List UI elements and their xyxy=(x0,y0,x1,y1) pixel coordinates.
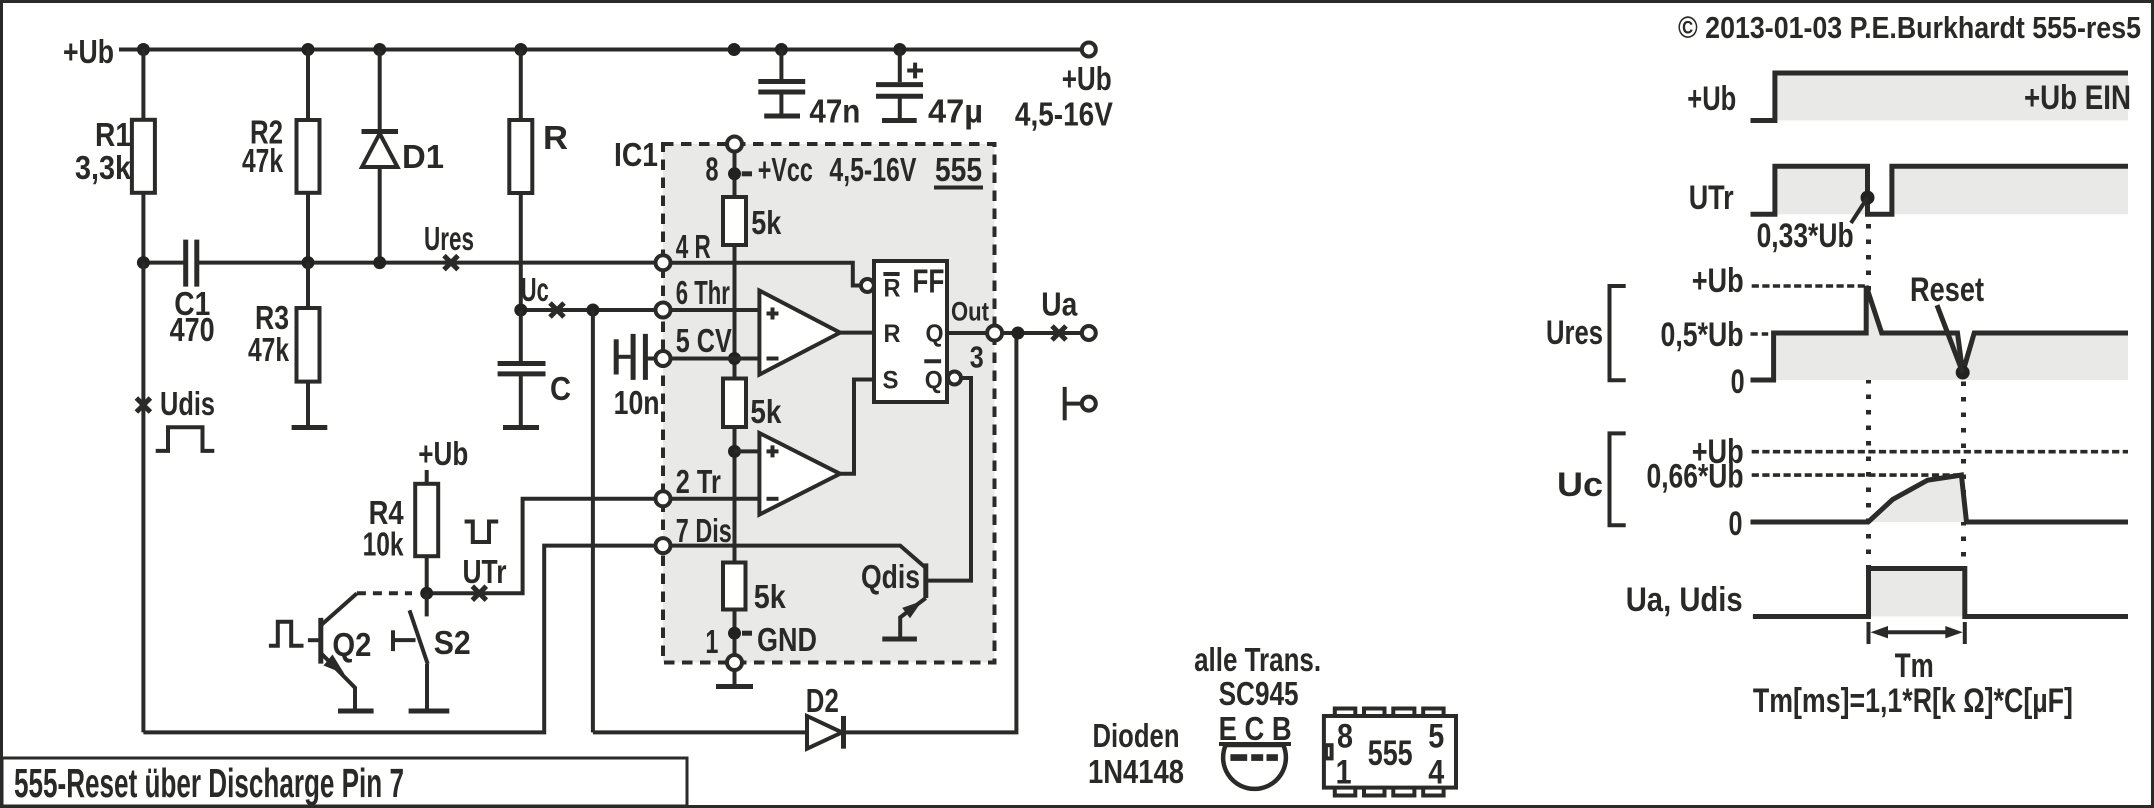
svg-text:FF: FF xyxy=(912,263,944,300)
title box xyxy=(2,758,687,806)
svg-text:0,33*Ub: 0,33*Ub xyxy=(1757,217,1854,255)
svg-text:470: 470 xyxy=(170,311,215,348)
wire pin4 to FF reset xyxy=(671,263,861,286)
transistor package TO-92 xyxy=(1219,710,1292,789)
svg-text:D1: D1 xyxy=(402,138,444,175)
svg-text:6 Thr: 6 Thr xyxy=(676,274,730,311)
dot Reset xyxy=(1956,366,1970,380)
node Uc-D2branch xyxy=(586,304,599,317)
pulse symbol Q2 base xyxy=(269,622,304,646)
svg-text:Uc: Uc xyxy=(521,271,549,308)
node comp2 plus xyxy=(728,445,741,458)
svg-text:Tm: Tm xyxy=(1895,647,1934,685)
svg-text:R1: R1 xyxy=(95,116,131,153)
svg-text:555-Reset über Discharge Pin 7: 555-Reset über Discharge Pin 7 xyxy=(14,760,404,806)
svg-text:Q2: Q2 xyxy=(332,626,371,663)
pulse symbol UTr negative xyxy=(465,522,499,543)
resistor 5k top xyxy=(723,197,782,245)
bubble FF Rbar input xyxy=(861,279,874,292)
wire left Udis vertical xyxy=(141,263,145,733)
svg-text:4,5-16V: 4,5-16V xyxy=(829,151,916,188)
node R4-S2 xyxy=(420,587,433,600)
svg-text:Udis: Udis xyxy=(160,385,215,422)
node out junction xyxy=(1011,327,1024,340)
svg-text:2 Tr: 2 Tr xyxy=(676,463,721,500)
ground pin1 xyxy=(716,670,753,687)
wire Q2 collector dashed link xyxy=(357,591,412,595)
svg-text:C: C xyxy=(550,370,571,407)
svg-text:Uc: Uc xyxy=(1557,466,1603,504)
transistor Q2 xyxy=(308,593,372,709)
dashed +Ub level Ures xyxy=(1752,284,1867,288)
wire comp1 out to FF R xyxy=(840,331,874,335)
svg-text:4: 4 xyxy=(1428,754,1444,792)
marker Udis xyxy=(136,385,215,422)
IC package DIP-8 555 xyxy=(1324,709,1456,796)
dotted timeline t1 xyxy=(1866,224,1871,569)
pulse symbol Udis xyxy=(156,427,215,451)
marker Ures xyxy=(424,220,474,270)
svg-text:E C B: E C B xyxy=(1219,710,1292,747)
resistor 5k mid xyxy=(723,379,782,431)
dashed 0,66*Ub level xyxy=(1752,473,1959,477)
svg-text:Ua, Udis: Ua, Udis xyxy=(1626,581,1743,619)
svg-text:5k: 5k xyxy=(754,578,787,615)
wire comp2 out to FF S xyxy=(840,380,874,474)
bracket Ures xyxy=(1610,286,1626,380)
svg-text:1: 1 xyxy=(1336,754,1352,792)
svg-text:+Ub: +Ub xyxy=(1692,262,1744,300)
wire chain bottom xyxy=(733,610,737,656)
resistor R2 xyxy=(242,50,320,263)
svg-text:S2: S2 xyxy=(434,624,471,661)
diode D1 xyxy=(362,50,445,263)
diagram Ures trace xyxy=(1751,286,2129,380)
dashes 0,5*Ub xyxy=(1751,332,1769,336)
capacitor 47n xyxy=(758,50,860,130)
capacitor C1 xyxy=(170,240,215,348)
terminal Ua xyxy=(1082,326,1096,340)
diagram Uc trace xyxy=(1751,475,2129,522)
capacitor 47u polarized xyxy=(876,50,983,130)
diagram +Ub fill xyxy=(1775,73,2128,121)
ground S2 xyxy=(409,709,450,714)
wire chain mid2 xyxy=(733,427,737,563)
pin 8 circle top xyxy=(727,137,742,152)
svg-text:Q: Q xyxy=(925,367,943,395)
wire UTr to pin2 xyxy=(427,499,656,593)
svg-text:10n: 10n xyxy=(614,384,660,421)
resistor R4 xyxy=(363,470,439,593)
svg-text:Qdis: Qdis xyxy=(861,558,920,595)
svg-text:+Ub: +Ub xyxy=(418,435,468,472)
resistor R3 xyxy=(248,263,320,428)
svg-text:R: R xyxy=(884,320,901,348)
pin 2 Tr xyxy=(656,463,721,506)
dashed +Ub level Uc xyxy=(1752,450,2128,454)
node rail-R2 xyxy=(302,43,315,56)
svg-text:SC945: SC945 xyxy=(1219,675,1299,712)
svg-text:+Vcc: +Vcc xyxy=(758,151,813,188)
svg-text:4 R: 4 R xyxy=(676,228,711,265)
svg-text:Out: Out xyxy=(951,296,989,326)
svg-text:5k: 5k xyxy=(750,393,782,430)
op-amp comp2 trigger xyxy=(759,433,840,515)
terminal Ua return xyxy=(1065,387,1096,420)
pin 3 Out circle xyxy=(987,326,1002,341)
svg-text:8: 8 xyxy=(706,151,719,188)
marker Uc xyxy=(521,271,564,317)
svg-text:© 2013-01-03 P.E.Burkhardt 555: © 2013-01-03 P.E.Burkhardt 555-res5 xyxy=(1678,10,2141,45)
diagram Ua fill xyxy=(1869,569,1965,617)
label alle Trans. SC945 xyxy=(1194,641,1321,712)
svg-text:8: 8 xyxy=(1337,718,1353,756)
pin 1 circle bottom xyxy=(727,655,742,670)
svg-text:555: 555 xyxy=(1368,734,1413,773)
capacitor C xyxy=(498,310,571,428)
svg-text:0: 0 xyxy=(1731,363,1745,401)
svg-text:Ures: Ures xyxy=(1546,314,1603,352)
svg-text:5: 5 xyxy=(1428,718,1444,756)
svg-text:Reset: Reset xyxy=(1910,271,1984,309)
svg-text:S: S xyxy=(883,367,899,395)
ground C xyxy=(503,425,539,430)
ground Q2 xyxy=(338,709,374,714)
svg-text:Tm[ms]=1,1*R[k Ω]*C[µF]: Tm[ms]=1,1*R[k Ω]*C[µF] xyxy=(1753,682,2073,720)
dot UTr threshold xyxy=(1861,191,1875,205)
svg-text:IC1: IC1 xyxy=(614,136,658,173)
svg-text:555: 555 xyxy=(935,151,982,188)
svg-text:Ua: Ua xyxy=(1041,286,1078,323)
bracket Uc xyxy=(1610,433,1626,525)
svg-text:Q: Q xyxy=(926,320,944,348)
wire +Ub rail xyxy=(119,48,1082,52)
op-amp comp1 threshold xyxy=(759,291,840,375)
svg-text:+Ub: +Ub xyxy=(63,33,114,70)
node pin8 xyxy=(728,167,741,180)
diagram Uc fill xyxy=(1868,475,1966,522)
wire chain mid1 xyxy=(733,245,737,379)
node R2-Ures xyxy=(302,256,315,269)
flip-flop FF box xyxy=(874,261,947,402)
bubble FF Qbar output xyxy=(948,372,961,385)
svg-text:47µ: 47µ xyxy=(928,93,983,130)
svg-text:alle Trans.: alle Trans. xyxy=(1194,641,1321,678)
svg-text:47n: 47n xyxy=(809,93,860,130)
output Ua wire xyxy=(1002,331,1082,335)
wire pin5 to comp1 minus xyxy=(671,357,760,361)
pin 5 CV xyxy=(656,322,732,366)
pin 4 R xyxy=(656,228,711,270)
svg-text:D2: D2 xyxy=(806,682,839,719)
svg-text:0,5*Ub: 0,5*Ub xyxy=(1661,316,1744,354)
svg-text:UTr: UTr xyxy=(1689,179,1734,217)
transistor Qdis xyxy=(861,558,926,639)
arrow Tm xyxy=(1869,622,1965,644)
terminal +Ub xyxy=(1082,43,1096,57)
node R-C xyxy=(514,304,527,317)
wire Uc row xyxy=(521,308,656,312)
wire Ures row xyxy=(143,261,656,265)
diode D2 xyxy=(806,682,844,749)
svg-text:10k: 10k xyxy=(363,526,404,563)
svg-text:+Ub: +Ub xyxy=(1687,80,1736,118)
diagram UTr trace xyxy=(1751,166,2129,214)
wire pin2 to comp2 minus xyxy=(671,497,760,501)
wire D2 rail xyxy=(593,333,1017,732)
node rail-D1 xyxy=(373,43,386,56)
label Dioden 1N4148 xyxy=(1088,717,1184,790)
leader 0,33*Ub xyxy=(1851,198,1868,223)
resistor 5k bottom xyxy=(723,563,786,616)
leader Reset xyxy=(1937,305,1963,372)
svg-text:7 Dis: 7 Dis xyxy=(676,512,732,549)
IC1 555 box xyxy=(614,136,995,663)
svg-text:Ures: Ures xyxy=(424,220,474,257)
node rail-C47u xyxy=(893,43,906,56)
svg-text:R: R xyxy=(884,275,901,303)
switch S2 xyxy=(393,593,471,709)
wire pin7 to Qdis collector xyxy=(671,546,926,568)
svg-text:0: 0 xyxy=(1729,505,1743,543)
svg-text:3: 3 xyxy=(970,340,984,375)
node rail-pin8 xyxy=(728,43,741,56)
label +Vcc 4,5-16V 555 xyxy=(706,151,984,188)
svg-text:1N4148: 1N4148 xyxy=(1088,753,1184,790)
diagram UTr fill xyxy=(1775,166,2128,214)
node CV-ref xyxy=(728,352,741,365)
pin 7 Dis xyxy=(656,512,732,553)
svg-text:4,5-16V: 4,5-16V xyxy=(1015,96,1113,133)
ground R3 xyxy=(292,425,328,430)
resistor R xyxy=(509,50,568,311)
svg-text:47k: 47k xyxy=(242,142,283,179)
svg-text:UTr: UTr xyxy=(463,553,507,590)
svg-text:1: 1 xyxy=(705,623,718,660)
marker Ua xyxy=(1041,286,1078,340)
wire comp2 plus stub xyxy=(735,449,760,453)
marker UTr xyxy=(463,553,507,600)
node pin1 GND xyxy=(705,621,817,660)
node rail-R xyxy=(514,43,527,56)
svg-text:0,66*Ub: 0,66*Ub xyxy=(1647,458,1744,496)
svg-text:R: R xyxy=(543,119,568,156)
capacitor 10n CV xyxy=(614,334,660,421)
wire D2 branch vertical xyxy=(591,310,595,732)
node C1-R1 xyxy=(137,256,150,269)
node D1-Ures xyxy=(373,256,386,269)
node rail-C47n xyxy=(775,43,788,56)
diagram Ua trace xyxy=(1753,569,2128,617)
resistor R1 xyxy=(75,50,155,263)
svg-text:+Ub: +Ub xyxy=(1062,60,1112,97)
svg-text:GND: GND xyxy=(757,621,817,658)
svg-text:Dioden: Dioden xyxy=(1093,717,1180,754)
diagram +Ub trace xyxy=(1751,73,2129,121)
wire bottom discharge rail xyxy=(143,546,656,733)
wire Qbar to Qdis base xyxy=(928,378,971,581)
diagram Ures fill xyxy=(1774,286,2128,380)
svg-text:3,3k: 3,3k xyxy=(75,149,132,186)
node rail-R1 xyxy=(137,43,150,56)
wire FF Q to Out pin xyxy=(947,331,987,335)
svg-text:+Ub EIN: +Ub EIN xyxy=(2024,79,2131,117)
pin 6 Thr xyxy=(656,274,730,318)
wire pin6 to comp1 plus xyxy=(671,308,760,312)
svg-text:5k: 5k xyxy=(751,204,782,241)
svg-text:47k: 47k xyxy=(248,331,289,368)
wire Vcc chain xyxy=(733,152,737,198)
svg-text:5 CV: 5 CV xyxy=(676,322,732,359)
dotted timeline t2 xyxy=(1961,382,1966,569)
